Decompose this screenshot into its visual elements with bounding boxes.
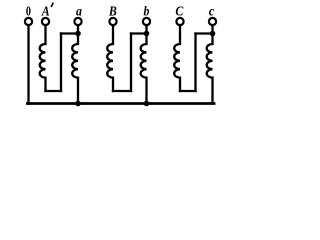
winding a (coil): [72, 34, 78, 104]
wire top horizontal group3: [196, 32, 213, 34]
node junction a: [75, 31, 81, 37]
node junction c: [210, 31, 216, 37]
wire a to junction: [77, 26, 79, 34]
node junction b: [144, 31, 150, 37]
terminal B: [109, 18, 116, 25]
node a-bus: [75, 101, 81, 107]
terminal c: [209, 18, 216, 25]
wire b to junction: [145, 26, 147, 34]
svg-text:c: c: [209, 2, 214, 18]
svg-text:0: 0: [26, 3, 31, 19]
winding b (coil): [141, 34, 147, 104]
wire bottom horizontal group3: [180, 90, 196, 92]
wire connecting vertical group2: [130, 34, 132, 92]
svg-text:b: b: [144, 2, 150, 18]
terminal 0: [25, 18, 32, 25]
wire top horizontal group1: [61, 32, 78, 34]
wire c to junction: [211, 26, 213, 34]
wire connecting vertical group1: [60, 34, 62, 92]
svg-text:B: B: [108, 2, 117, 18]
winding C (coil): [174, 26, 180, 91]
wire bottom horizontal group1: [46, 90, 62, 92]
terminal a: [74, 18, 81, 25]
wire connecting vertical group3: [194, 34, 196, 92]
terminal b: [143, 18, 150, 25]
node b-bus: [144, 101, 150, 107]
terminal C: [176, 18, 183, 25]
label A prime tick: [51, 3, 53, 6]
wire 0 down to bus: [27, 26, 29, 104]
winding A (coil): [40, 26, 46, 91]
svg-text:A: A: [41, 2, 50, 18]
winding B (coil): [107, 26, 113, 91]
terminal A: [42, 18, 49, 25]
svg-text:C: C: [175, 2, 183, 18]
svg-text:a: a: [76, 2, 82, 18]
bus (neutral): [27, 102, 214, 105]
wire bottom horizontal group2: [113, 90, 131, 92]
winding c (coil): [207, 34, 213, 104]
wire top horizontal group2: [131, 32, 147, 34]
